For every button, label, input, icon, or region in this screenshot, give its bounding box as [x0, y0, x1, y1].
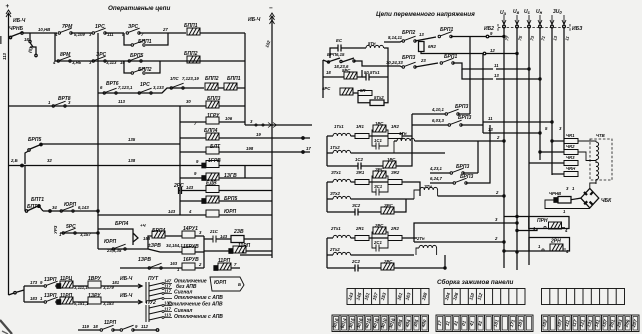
- svg-text:163: 163: [170, 261, 178, 266]
- svg-text:БРП3: БРП3: [455, 104, 468, 110]
- svg-text:+Ч: +Ч: [140, 223, 147, 228]
- rung 11РП 1ЗРУ: [24, 301, 44, 303]
- bypass branch with contact БПП1-1: [124, 33, 168, 45]
- svg-text:Сборка зажимов панели: Сборка зажимов панели: [437, 278, 514, 286]
- contact ЧРНБ: [10, 32, 23, 37]
- svg-text:10,НВ: 10,НВ: [38, 27, 50, 32]
- svg-text:2R1: 2R1: [355, 226, 364, 231]
- svg-text:32: 32: [47, 158, 52, 163]
- svg-text:1R2: 1R2: [391, 124, 399, 129]
- svg-text:1Тх1: 1Тх1: [334, 124, 344, 129]
- svg-text:−: −: [269, 5, 273, 12]
- coil БРП4: [152, 231, 165, 238]
- svg-text:БРП3: БРП3: [458, 115, 471, 121]
- svg-text:Отключение с АПВ: Отключение с АПВ: [174, 314, 223, 320]
- svg-text:ЧRН: ЧRН: [566, 166, 576, 171]
- svg-text:4,23,1: 4,23,1: [429, 166, 443, 171]
- svg-text:11: 11: [488, 116, 493, 121]
- svg-text:3,113: 3,113: [106, 60, 117, 65]
- scan smudge bottom-left corner: [0, 320, 12, 334]
- rung 11РЦ 1ВРУ: [24, 285, 44, 287]
- svg-text:ИБ-Ч: ИБ-Ч: [248, 17, 261, 23]
- svg-text:11РП: 11РП: [60, 293, 73, 299]
- svg-text:5Тх2: 5Тх2: [374, 95, 384, 100]
- wire bus to bridge bottom: [504, 208, 590, 217]
- terminal strip A: [347, 289, 429, 305]
- svg-text:135: 135: [128, 137, 136, 142]
- svg-text:7РМ: 7РМ: [62, 24, 73, 30]
- svg-text:5РС: 5РС: [322, 86, 331, 91]
- svg-text:16РУВ: 16РУВ: [183, 257, 199, 263]
- wire 1Тн row to bus: [478, 141, 504, 147]
- left bus of AC section: [322, 60, 324, 98]
- svg-text:1ПС: 1ПС: [170, 76, 179, 81]
- svg-text:3,Н5: 3,Н5: [72, 60, 82, 65]
- svg-text:Оперативные цепи: Оперативные цепи: [108, 5, 170, 12]
- rung 3 wire: [98, 88, 204, 93]
- svg-text:34: 34: [52, 205, 57, 210]
- svg-text:ЗR2: ЗR2: [391, 170, 400, 175]
- svg-text:ПУ2: ПУ2: [146, 300, 156, 306]
- svg-text:6,143: 6,143: [78, 205, 89, 210]
- svg-text:2Тн: 2Тн: [416, 236, 425, 241]
- svg-text:183: 183: [30, 296, 38, 301]
- svg-text:6,24,7: 6,24,7: [430, 176, 443, 181]
- terminal strip F: [542, 315, 640, 332]
- svg-text:1ЗРВ: 1ЗРВ: [138, 257, 151, 263]
- wire rung 1: [23, 32, 57, 34]
- stub 17: [272, 151, 310, 153]
- svg-text:ПУТ: ПУТ: [148, 276, 159, 282]
- svg-text:БРП3: БРП3: [460, 174, 473, 180]
- svg-text:БРП4: БРП4: [115, 221, 128, 227]
- svg-text:БПП2: БПП2: [205, 76, 219, 82]
- svg-text:17: 17: [306, 146, 311, 151]
- svg-text:ЗR1: ЗR1: [356, 170, 365, 175]
- svg-text:2Тх2: 2Тх2: [329, 247, 340, 252]
- svg-text:2С1: 2С1: [373, 240, 382, 245]
- svg-text:6,03,3: 6,03,3: [432, 118, 445, 123]
- svg-text:2Тх1: 2Тх1: [330, 226, 341, 231]
- svg-text:3U0: 3U0: [553, 9, 562, 15]
- coil БРП5 row: [202, 199, 206, 203]
- svg-text:ЧR2: ЧR2: [566, 144, 575, 149]
- terminal strip E: [436, 315, 533, 332]
- svg-text:198: 198: [246, 146, 254, 151]
- svg-text:143: 143: [220, 234, 228, 239]
- coil БПП1 rung3: [224, 83, 237, 90]
- svg-text:ЧРНВ: ЧРНВ: [549, 191, 561, 196]
- svg-text:1ЗГВ: 1ЗГВ: [224, 173, 237, 179]
- svg-text:30: 30: [186, 99, 191, 104]
- wire y230: [517, 229, 537, 231]
- resistor 1R2: [388, 134, 402, 139]
- svg-text:2,Б: 2,Б: [10, 158, 18, 163]
- svg-text:6R2: 6R2: [428, 44, 436, 49]
- svg-text:ЗРС: ЗРС: [96, 52, 107, 58]
- coil БПП2 rung3: [205, 83, 218, 90]
- svg-text:ЗТх2: ЗТх2: [330, 191, 341, 196]
- svg-text:113: 113: [164, 313, 171, 318]
- svg-text:11РП: 11РП: [104, 320, 117, 326]
- svg-text:1R1: 1R1: [356, 124, 364, 129]
- wire y251 to left bus: [504, 250, 529, 252]
- svg-text:ИБ-Ч: ИБ-Ч: [120, 276, 133, 282]
- svg-text:ЮРП: ЮРП: [224, 209, 237, 215]
- crossover link 3 to minus bus: [245, 124, 312, 126]
- svg-text:Uв: Uв: [513, 9, 520, 15]
- svg-text:ВРТ6: ВРТ6: [106, 81, 119, 87]
- bridge rectifier ЧБК: [581, 188, 599, 208]
- svg-text:±ЗРВ: ±ЗРВ: [148, 243, 161, 249]
- svg-text:7,123,1: 7,123,1: [118, 85, 133, 90]
- svg-text:2ЗВ: 2ЗВ: [233, 229, 244, 235]
- svg-text:Цепи переменного напряжения: Цепи переменного напряжения: [376, 11, 475, 18]
- svg-text:119: 119: [82, 324, 89, 329]
- bottom split from plus bus: [9, 293, 15, 295]
- svg-text:1ГРУ: 1ГРУ: [207, 113, 220, 119]
- svg-text:173: 173: [30, 280, 38, 285]
- vertical branch to rung 2: [54, 33, 56, 61]
- svg-text:112: 112: [141, 324, 148, 329]
- svg-text:+: +: [6, 3, 10, 10]
- svg-text:30,24,33: 30,24,33: [386, 60, 403, 65]
- svg-text:Uн: Uн: [536, 9, 543, 15]
- svg-text:БПП1: БПП1: [227, 76, 241, 82]
- svg-text:3,179: 3,179: [103, 285, 114, 290]
- svg-text:18: 18: [326, 70, 331, 75]
- svg-text:3,183: 3,183: [103, 301, 114, 306]
- svg-text:27: 27: [162, 27, 168, 32]
- svg-text:БРП5: БРП5: [224, 196, 237, 202]
- terminal strip B: [444, 289, 525, 305]
- svg-text:ИБ2: ИБ2: [484, 26, 494, 32]
- svg-text:1Тн: 1Тн: [399, 131, 407, 136]
- svg-text:БРП3: БРП3: [456, 164, 469, 170]
- svg-text:ЗТх1: ЗТх1: [331, 170, 342, 175]
- svg-text:13: 13: [494, 73, 499, 78]
- svg-text:ЧR3: ЧR3: [566, 155, 575, 160]
- svg-text:УРЗ: УРЗ: [53, 225, 58, 234]
- bus input arrows: [502, 15, 506, 25]
- branch stub with contact 16: [30, 33, 36, 54]
- wire ЗТн to bus: [438, 195, 504, 197]
- svg-text:117: 117: [164, 289, 171, 294]
- junction dots: [503, 35, 505, 37]
- svg-text:ЧРНБ: ЧРНБ: [9, 26, 23, 32]
- svg-text:ИБ-Ч: ИБ-Ч: [120, 293, 133, 299]
- left coil rail: [179, 106, 181, 215]
- svg-text:143: 143: [168, 209, 176, 214]
- svg-text:18: 18: [24, 37, 29, 42]
- svg-text:1С1: 1С1: [374, 138, 382, 143]
- svg-text:ИБЗ: ИБЗ: [572, 26, 583, 32]
- svg-text:13: 13: [488, 127, 493, 132]
- vertical branch x25 down to БПТ rung: [24, 166, 26, 212]
- minus bus wire: [271, 16, 273, 258]
- svg-text:11: 11: [494, 63, 499, 68]
- svg-text:18: 18: [93, 324, 98, 329]
- svg-text:Uс: Uс: [524, 9, 531, 15]
- svg-text:БРП5: БРП5: [28, 137, 41, 143]
- svg-text:3,133: 3,133: [153, 85, 164, 90]
- svg-text:4,10,1: 4,10,1: [431, 107, 445, 112]
- svg-text:БРП4: БРП4: [152, 228, 165, 234]
- svg-text:21С: 21С: [209, 229, 219, 234]
- rung 2 wire: [55, 60, 245, 62]
- svg-text:Б: Б: [238, 282, 241, 287]
- svg-text:1ЗРУ: 1ЗРУ: [88, 293, 101, 299]
- vertical links down to БРП3 rows: [469, 37, 471, 115]
- svg-text:143: 143: [186, 185, 194, 190]
- svg-text:181: 181: [112, 280, 120, 285]
- dogleg to coil row 215: [98, 211, 170, 215]
- svg-text:1С2: 1С2: [355, 157, 363, 162]
- svg-text:Uа: Uа: [500, 10, 507, 16]
- transformer 2Тн secondary loop: [414, 223, 517, 242]
- vertical branch x98: [97, 33, 99, 213]
- coil 1РС-8: [373, 125, 386, 132]
- relay block 2РН: [529, 238, 570, 252]
- svg-text:ЧR1: ЧR1: [566, 133, 575, 138]
- svg-text:ИБ-Ч: ИБ-Ч: [13, 18, 26, 24]
- svg-text:113: 113: [2, 53, 7, 60]
- svg-text:15РУВ: 15РУВ: [183, 244, 199, 250]
- vertical bus wires: [503, 28, 505, 268]
- svg-text:13: 13: [419, 32, 424, 37]
- rung 4 wire: [9, 105, 181, 107]
- svg-text:138: 138: [128, 158, 136, 163]
- svg-text:ЕС: ЕС: [336, 38, 343, 43]
- right collector rail: [244, 33, 246, 125]
- svg-text:12: 12: [490, 48, 495, 53]
- svg-text:БРП2: БРП2: [402, 30, 415, 36]
- svg-text:2R2: 2R2: [390, 226, 399, 231]
- svg-text:ЕДВ: ЕДВ: [206, 181, 217, 187]
- last bus stub: [240, 254, 272, 256]
- svg-text:ЗС1: ЗС1: [374, 184, 383, 189]
- coil 1ЗГВ row: [202, 176, 206, 180]
- svg-text:ЗС2: ЗС2: [352, 203, 361, 208]
- svg-text:19: 19: [256, 132, 261, 137]
- bottom rung 11РП-4: [78, 329, 100, 331]
- resistor 1R1: [355, 134, 369, 139]
- bypass branch with contact БПП2-1: [124, 61, 160, 73]
- svg-text:8,14,11: 8,14,11: [388, 35, 403, 40]
- svg-text:ЮРП: ЮРП: [104, 239, 117, 245]
- svg-text:2С2: 2С2: [351, 259, 360, 264]
- scan mark left edge: [0, 36, 2, 44]
- svg-text:БРП6,15: БРП6,15: [327, 52, 345, 57]
- svg-text:113: 113: [118, 99, 125, 104]
- rail stub 245: [244, 166, 246, 179]
- svg-text:БРП3: БРП3: [402, 55, 415, 61]
- svg-text:23: 23: [420, 58, 426, 63]
- winding 1Тх1: [327, 135, 333, 137]
- svg-text:3,157: 3,157: [80, 232, 91, 237]
- svg-text:158: 158: [143, 236, 151, 241]
- plus bus wire: [8, 13, 10, 295]
- svg-text:БПТ1: БПТ1: [31, 197, 44, 203]
- svg-text:1Тх2: 1Тх2: [330, 145, 340, 150]
- terminal strip C: [542, 289, 625, 305]
- crossover stubs to buses y122 y133: [483, 121, 552, 123]
- svg-text:106: 106: [225, 116, 233, 121]
- svg-text:34,154,1: 34,154,1: [166, 243, 183, 248]
- svg-text:ЧТВ: ЧТВ: [596, 133, 605, 138]
- terminal strip D: [332, 315, 429, 332]
- contact 1ПС: [170, 83, 184, 89]
- svg-text:7,123,19: 7,123,19: [182, 76, 199, 81]
- svg-text:1РС: 1РС: [140, 82, 150, 88]
- svg-text:ПРН: ПРН: [537, 218, 548, 224]
- svg-text:ЧБК: ЧБК: [601, 198, 612, 204]
- svg-text:Отключение с АПВ: Отключение с АПВ: [174, 295, 223, 301]
- svg-text:Отключение без АПВ: Отключение без АПВ: [168, 301, 223, 308]
- relay block ПРН: [529, 217, 569, 229]
- svg-text:ЮРП: ЮРП: [214, 280, 227, 286]
